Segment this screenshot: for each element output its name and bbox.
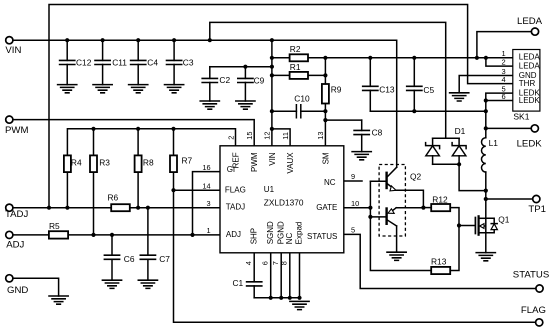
svg-text:10: 10 <box>351 199 359 208</box>
svg-text:5: 5 <box>351 226 355 235</box>
svg-text:6: 6 <box>260 261 269 265</box>
svg-text:R3: R3 <box>99 157 110 167</box>
svg-text:11: 11 <box>281 132 290 140</box>
svg-text:LEDA: LEDA <box>517 16 543 27</box>
svg-text:R5: R5 <box>49 221 60 231</box>
svg-text:SGND: SGND <box>266 221 275 244</box>
svg-text:TADJ: TADJ <box>5 209 28 220</box>
svg-text:R8: R8 <box>143 157 154 167</box>
svg-text:SM: SM <box>321 152 330 164</box>
svg-text:LEDA: LEDA <box>519 61 541 70</box>
svg-text:VAUX: VAUX <box>286 152 295 174</box>
svg-text:ADJ: ADJ <box>226 230 241 239</box>
svg-text:2: 2 <box>226 136 235 140</box>
svg-text:R7: R7 <box>182 156 193 166</box>
svg-text:12: 12 <box>263 131 272 139</box>
svg-text:TADJ: TADJ <box>226 202 245 211</box>
svg-text:LEDK: LEDK <box>519 96 541 105</box>
svg-text:R12: R12 <box>432 195 448 205</box>
svg-text:FLAG: FLAG <box>521 305 546 316</box>
svg-text:2: 2 <box>502 58 506 67</box>
svg-text:C13: C13 <box>379 85 395 95</box>
svg-text:R1: R1 <box>290 62 301 72</box>
svg-text:GATE: GATE <box>316 203 337 212</box>
svg-text:STATUS: STATUS <box>307 232 337 241</box>
svg-text:9: 9 <box>351 172 355 181</box>
svg-text:R13: R13 <box>431 257 447 267</box>
svg-text:C10: C10 <box>294 94 310 104</box>
svg-text:LEDK: LEDK <box>517 138 543 149</box>
svg-text:C3: C3 <box>183 58 194 68</box>
svg-text:REF: REF <box>231 152 240 168</box>
svg-text:C2: C2 <box>219 75 230 85</box>
svg-text:R2: R2 <box>290 44 301 54</box>
svg-text:STATUS: STATUS <box>513 269 549 280</box>
svg-text:TP1: TP1 <box>528 204 546 215</box>
svg-text:SHP: SHP <box>249 228 258 244</box>
svg-text:VIN: VIN <box>268 152 277 166</box>
svg-text:4: 4 <box>244 261 253 265</box>
svg-text:SK1: SK1 <box>513 111 529 121</box>
svg-text:ZXLD1370: ZXLD1370 <box>264 198 304 208</box>
svg-text:C1: C1 <box>233 278 244 288</box>
svg-text:Q2: Q2 <box>410 172 422 182</box>
svg-text:C5: C5 <box>423 85 434 95</box>
svg-text:C4: C4 <box>147 58 158 68</box>
svg-text:1: 1 <box>206 226 210 235</box>
svg-text:6: 6 <box>502 92 506 101</box>
svg-text:NC: NC <box>324 178 336 187</box>
svg-text:Q1: Q1 <box>498 215 510 225</box>
svg-text:14: 14 <box>202 182 210 191</box>
svg-text:GND: GND <box>7 285 28 296</box>
svg-text:13: 13 <box>316 131 325 139</box>
svg-text:4: 4 <box>502 75 506 84</box>
svg-text:D1: D1 <box>455 126 466 136</box>
svg-text:R6: R6 <box>108 192 119 202</box>
svg-text:VIN: VIN <box>5 45 21 56</box>
svg-text:C11: C11 <box>112 58 127 68</box>
svg-text:1: 1 <box>502 49 506 58</box>
svg-text:NC: NC <box>285 233 294 245</box>
svg-text:L1: L1 <box>489 138 499 148</box>
svg-text:U1: U1 <box>264 185 275 194</box>
svg-text:R9: R9 <box>331 85 342 95</box>
svg-text:R4: R4 <box>71 157 82 167</box>
svg-text:THR: THR <box>519 79 536 88</box>
svg-text:16: 16 <box>202 163 210 172</box>
svg-text:LEDA: LEDA <box>519 53 541 62</box>
svg-text:FLAG: FLAG <box>225 186 246 195</box>
svg-text:15: 15 <box>245 131 254 139</box>
svg-text:C9: C9 <box>254 76 265 86</box>
svg-text:C12: C12 <box>76 58 92 68</box>
svg-text:8: 8 <box>280 261 289 265</box>
svg-text:PWM: PWM <box>250 152 259 172</box>
svg-text:PWM: PWM <box>5 125 28 136</box>
svg-text:C7: C7 <box>159 254 170 264</box>
svg-text:3: 3 <box>206 199 210 208</box>
svg-text:ADJ: ADJ <box>6 240 24 251</box>
svg-text:C8: C8 <box>372 128 383 138</box>
svg-text:C6: C6 <box>124 254 135 264</box>
svg-text:Expad: Expad <box>295 222 304 245</box>
